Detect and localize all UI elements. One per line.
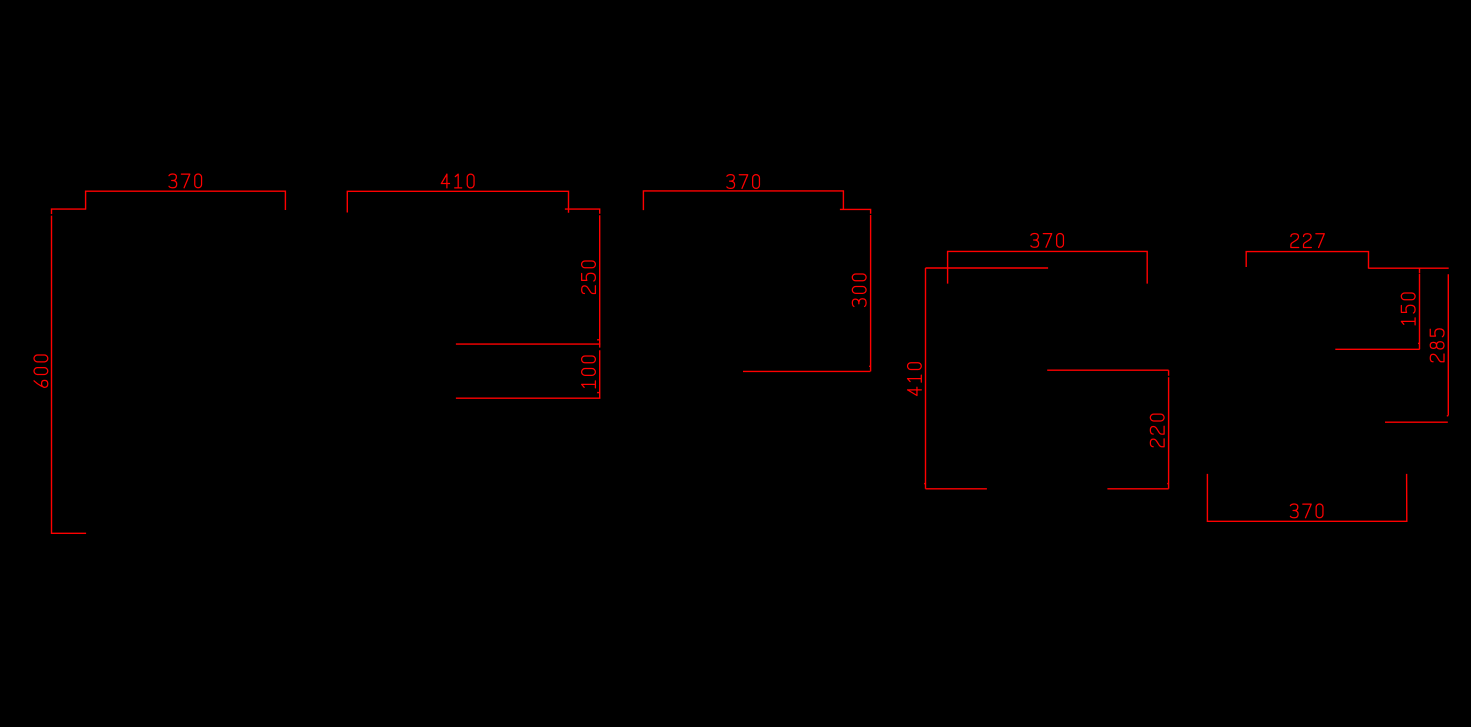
dim 150 dim line with arrow gap bbox=[1419, 268, 1421, 349]
dim 220: top extension line bbox=[1047, 369, 1168, 371]
dim 285 arrow serif bbox=[1447, 415, 1449, 417]
dim text 370 (shape3) bbox=[727, 175, 760, 189]
shelf line upper bbox=[456, 343, 601, 345]
dim 250 arrow serif bbox=[597, 339, 600, 341]
dim text 370 (shape4) bbox=[1031, 234, 1064, 248]
dim text 250 bbox=[582, 261, 596, 294]
dim 410 arrow serif bbox=[924, 483, 925, 485]
dim text 100 bbox=[582, 356, 596, 388]
dim 220 bottom extension line bbox=[1107, 488, 1168, 490]
dim 300: top extension + dim line with arrow gap bbox=[840, 209, 871, 371]
dim 370 bottom: dim line + extension ticks bbox=[1207, 474, 1406, 521]
dim text 227 bbox=[1291, 234, 1324, 248]
dim text 300 bbox=[852, 274, 866, 307]
dim 220 dim line with arrow gap bbox=[1168, 370, 1170, 489]
dim 150 bottom extension line bbox=[1335, 348, 1419, 350]
dim 300 bottom extension line bbox=[743, 370, 870, 372]
dim 285 bottom extension line bbox=[1385, 421, 1448, 423]
dim 370 top-left: dim line + extension ticks bbox=[86, 191, 286, 210]
dim 370 (fourth panel): dim line + extension ticks bbox=[948, 251, 1148, 283]
top extension line of 150/285 bbox=[1368, 267, 1448, 269]
dim 100 arrow serif bbox=[597, 392, 600, 394]
dim text 285 bbox=[1430, 329, 1444, 362]
dim text 150 bbox=[1401, 293, 1415, 325]
dim 410 vertical dim line bbox=[925, 268, 927, 489]
dim text 410 (shape2) bbox=[441, 174, 474, 188]
dim 220 arrow serif bbox=[1167, 483, 1168, 485]
dim text 370 (shape5 bottom) bbox=[1290, 504, 1323, 518]
dim text 600 bbox=[34, 355, 48, 387]
dim 600: top extension, dim line (with arrow gap), bottom extension bbox=[52, 209, 87, 533]
dim 300 arrow serif bbox=[869, 365, 871, 367]
dim 410 bottom extension line bbox=[926, 488, 987, 490]
dim 150 arrow serif bbox=[1418, 342, 1420, 344]
dim 100 dim line with arrow gap bbox=[599, 344, 601, 398]
dim text 410 vertical bbox=[908, 363, 922, 396]
dim text 220 bbox=[1150, 414, 1164, 447]
dim 410 vertical: top extension line bbox=[926, 267, 1049, 269]
dim text 370 (shape1) bbox=[169, 174, 202, 188]
dim 410: dim line + extension ticks bbox=[347, 191, 568, 213]
shelf line lower bbox=[456, 397, 601, 399]
dim 285 dim line bbox=[1447, 274, 1449, 415]
dim 370 (third panel): dim line + extension ticks bbox=[643, 191, 843, 210]
dim 250: top extension + dim line with arrow gap bbox=[565, 209, 600, 344]
dim 227: dim line + extension ticks bbox=[1246, 252, 1368, 269]
